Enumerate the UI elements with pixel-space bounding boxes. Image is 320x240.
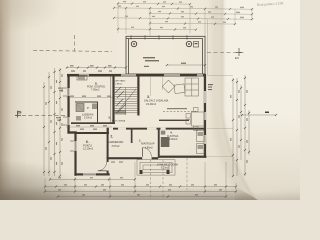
bottom wall mid section (garderoba/wiatrolap) (107, 157, 143, 159)
svg-text:1.: 1. (139, 139, 142, 143)
room6 window in bottom wall (83, 174, 96, 176)
svg-text:EV: EV (235, 56, 239, 60)
top dimension row 1 (114, 3, 252, 30)
paper fold bright right panel (223, 0, 303, 202)
porch column blobs (140, 170, 143, 174)
room8 closet box (77, 76, 87, 80)
axis dashed line upper-left (22, 35, 244, 115)
left dimension numbers (45, 74, 62, 165)
svg-text:KOTŁOWNIA: KOTŁOWNIA (112, 120, 126, 123)
dining table with chairs (186, 108, 204, 131)
top wall (north exterior) (67, 74, 206, 77)
fold shadow band (217, 0, 251, 204)
terrace label (143, 57, 159, 67)
stairs lower dark blobs (115, 110, 126, 115)
left dimension column lines (44, 68, 60, 176)
bottom-right corner vignette (247, 186, 320, 226)
ok window labels left (56, 88, 63, 121)
right dimension column lines (233, 75, 249, 176)
interior wall kitchen/salon partial (159, 120, 189, 121)
EV marker right (236, 48, 242, 56)
svg-text:7.: 7. (87, 106, 90, 110)
svg-text:5.07m2: 5.07m2 (84, 116, 93, 119)
svg-text:1.98m2: 1.98m2 (115, 83, 123, 85)
door gaps in middle wall (118, 128, 166, 130)
right dimension ticks (232, 77, 250, 177)
bottom dimension rows (45, 179, 236, 196)
stairs cut diagonal (116, 89, 136, 114)
interior wall garderoba right (131, 128, 133, 143)
svg-text:12.19m2: 12.19m2 (83, 147, 94, 151)
svg-text:8.10m2: 8.10m2 (161, 167, 169, 169)
bathroom fixtures (76, 104, 97, 121)
bottom wall left section (74, 173, 109, 175)
svg-text:4.96m2: 4.96m2 (145, 148, 153, 150)
interior wall corridor right / stairs left (112, 75, 114, 124)
right wall openings (204, 91, 206, 144)
salon coffee table diamond (162, 80, 175, 93)
svg-text:ŁAWA WEJŚCIOWA: ŁAWA WEJŚCIOWA (157, 164, 178, 167)
svg-text:9.92m2: 9.92m2 (169, 138, 178, 141)
left wall step (67, 131, 76, 133)
witness extensions to right dim column (207, 76, 233, 157)
entrance porch nested steps (137, 160, 175, 176)
witness vertical right of building (207, 19, 209, 75)
room labels (82, 76, 179, 170)
terrace column circle (131, 41, 136, 46)
paper background (0, 0, 300, 200)
salon furniture: sofa (174, 78, 199, 96)
left window sill marks (63, 88, 67, 125)
przejscie dashed line (163, 110, 196, 112)
svg-text:34.49m2: 34.49m2 (146, 102, 157, 106)
fold crease line (223, 0, 257, 203)
dim blobs under bottom wall (111, 162, 123, 163)
top-left corner vignette (0, 0, 62, 34)
svg-text:9.: 9. (113, 76, 116, 80)
right dimension numbers (230, 90, 247, 163)
right wall (east exterior) (204, 75, 206, 158)
wall connector garderoba corner (107, 128, 109, 134)
svg-text:3.57m2: 3.57m2 (112, 145, 121, 148)
kitchen stove block (161, 137, 170, 147)
svg-text:7.85m2: 7.85m2 (91, 88, 100, 91)
far-right level number (265, 112, 269, 114)
stairs (115, 88, 138, 116)
svg-text:5.: 5. (109, 116, 112, 120)
room6 top wall (75, 132, 109, 134)
left wall upper (exterior) (67, 75, 69, 133)
svg-text:KORYTARZ: KORYTARZ (114, 80, 126, 83)
bottom wall right section (kitchen) (158, 156, 206, 158)
terrace outline (126, 36, 205, 74)
bottom dimension numbers (58, 177, 222, 195)
room6 door gap in right wall (106, 162, 108, 171)
bathroom walls (75, 101, 98, 103)
left dimension ticks (43, 69, 61, 177)
svg-text:WIATROŁAP: WIATROŁAP (141, 143, 155, 146)
bottom dimension ticks (44, 178, 237, 197)
svg-text:6.: 6. (86, 140, 89, 144)
window mullion lines in top wall (79, 74, 203, 76)
dashed axes through porch (151, 158, 188, 199)
svg-text:GARDEROBA: GARDEROBA (108, 141, 124, 144)
lower-half gentle darkening (0, 0, 1, 1)
stairs hatch dark (115, 87, 126, 112)
middle horizontal wall right section (113, 128, 205, 130)
window label marks outside right wall (208, 84, 213, 90)
przejscie label (167, 108, 187, 109)
far-right level line (241, 114, 276, 116)
salon witness lines (151, 77, 163, 96)
dim text above room6 wall (80, 129, 97, 130)
room6 right wall (107, 128, 109, 176)
terrace rail ticks (131, 35, 187, 39)
bottom edge vignette (0, 186, 258, 200)
svg-text:3.: 3. (147, 95, 150, 99)
bottom-left corner vignette (0, 160, 89, 236)
benchmark marker left (15, 111, 22, 118)
bottom witness lines (45, 162, 236, 197)
stairs right wall (137, 75, 139, 116)
room6 window in left wall (75, 141, 77, 151)
room8 interior dimension line (66, 97, 115, 99)
dim line above top wall right (167, 64, 205, 66)
top dimension ticks (113, 2, 253, 31)
svg-text:2.: 2. (111, 135, 114, 139)
top dimension witness lines (118, 3, 252, 37)
left wall window gaps (68, 88, 70, 125)
top wall window gaps (79, 74, 203, 76)
dim line above top wall left (66, 67, 126, 69)
top dimension numbers (118, 1, 244, 29)
left wall lower (exterior) (74, 132, 76, 176)
interior wall wiatrolap right / kitchen left (158, 128, 160, 158)
kitchen counter blobs (197, 131, 205, 154)
